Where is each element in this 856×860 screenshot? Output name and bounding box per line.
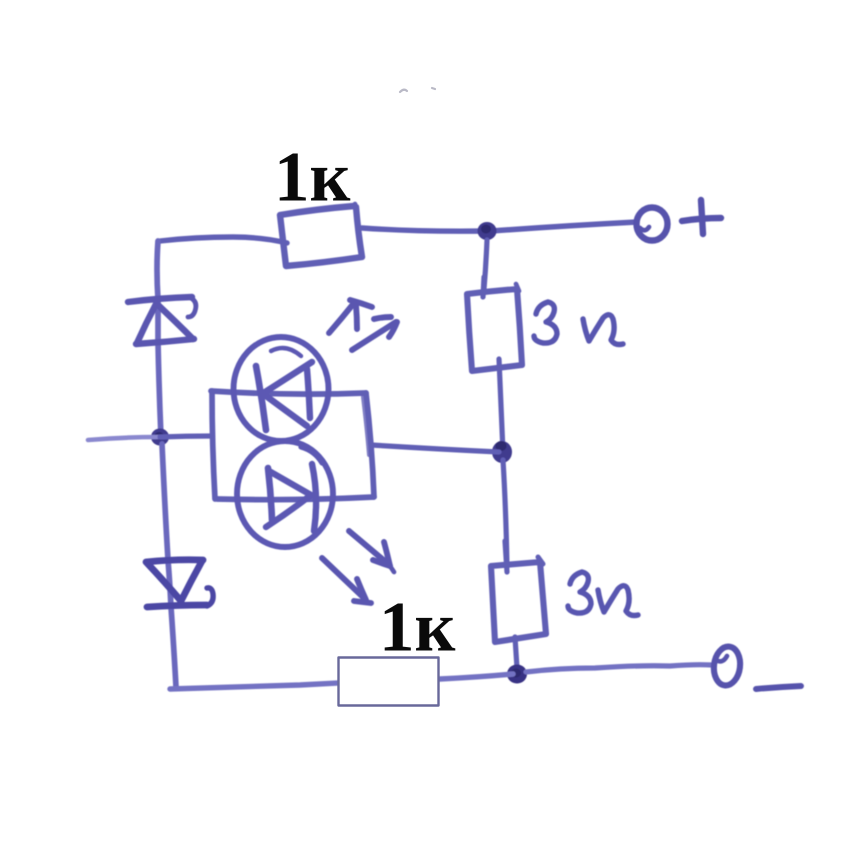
svg-text:1к: 1к (379, 589, 456, 667)
wire: R1 left lead to left rail corner (160, 237, 287, 243)
diode D2 (lower left, pointing down with bottom bar and hook) (146, 560, 213, 607)
wire: R3 bottom lead to node C (515, 637, 517, 668)
node D junction (left) (151, 429, 169, 446)
wire: node D down to D2 (162, 444, 176, 687)
light arrows of lower LED (pointing down-right) (322, 531, 394, 603)
wire: node A down to R2 (484, 240, 487, 289)
wire: housing right to node B (371, 445, 499, 452)
label R2 value 3 к (handwritten) (534, 302, 623, 345)
node A junction (top right) (478, 222, 497, 240)
label R3 value 3к (handwritten) (568, 572, 638, 616)
wire: stub left of node D to housing left (88, 436, 212, 440)
minus sign of 0 terminal (756, 686, 801, 689)
scan smudges (decorative) (400, 88, 435, 92)
diode D1 (upper left, cathode bar with hook) (128, 297, 196, 344)
terminal 0 (negative, bottom right) (712, 645, 743, 687)
light arrows of upper LED (pointing up-right) (329, 300, 397, 350)
wire: bottom rail (left corner to node C) (170, 674, 513, 689)
resistor R4 1к (clean rectangle overlay, bottom) (339, 658, 439, 706)
wire: node C to 0 terminal (wavy) (526, 665, 712, 672)
wire: left rail top segment (corner down to D1) (157, 241, 161, 437)
LED VD2 (lower, diode pointing right) (237, 441, 333, 547)
LED VD1 (upper, diode pointing left) (234, 337, 329, 441)
resistor R2 3к (hand-drawn box, upper right) (467, 277, 522, 371)
wire: R1 right lead to node A and + terminal (362, 222, 637, 231)
terminal + (positive, top right) (637, 200, 722, 241)
node B junction (mid right) (492, 441, 512, 463)
wire: R2 bottom lead to node B (499, 359, 503, 452)
resistor R3 3к (hand-drawn box, lower right) (491, 541, 546, 642)
wire: node B down to R3 (503, 460, 507, 567)
resistor R1 1к (hand-drawn box, top) (280, 204, 362, 266)
node C junction (bottom right) (507, 665, 527, 684)
optocoupler housing rectangle (hand-drawn) (211, 391, 374, 500)
svg-text:1к: 1к (274, 139, 351, 217)
